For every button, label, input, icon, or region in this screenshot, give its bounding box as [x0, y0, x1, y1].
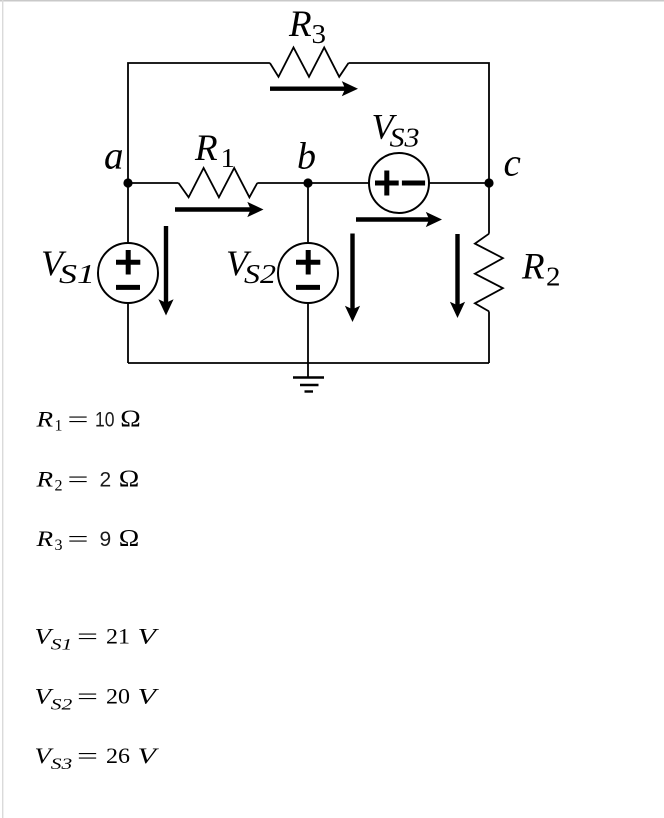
- value VS1 = 21 V: [35, 624, 160, 654]
- value VS2 = 20 V: [35, 683, 160, 713]
- bottom wire: [128, 362, 489, 364]
- resistor R1: [179, 168, 258, 197]
- svg-text:a: a: [104, 135, 124, 178]
- wire node a down to VS1: [127, 183, 129, 243]
- svg-text:c: c: [504, 142, 521, 185]
- wire R3 to top-right corner down to node c: [349, 63, 490, 183]
- label a: [104, 135, 124, 178]
- value R2 = 2 ohm: [35, 466, 139, 494]
- label b: [297, 136, 316, 178]
- node c: [484, 178, 493, 187]
- label R1: [194, 128, 235, 173]
- node a: [123, 178, 132, 187]
- label c: [504, 142, 521, 185]
- current arrow beside R2: [450, 234, 465, 318]
- voltage source VS1: [98, 243, 158, 303]
- value VS3 = 26 V: [35, 743, 160, 773]
- wire top-left loop: node a up and across to R3: [128, 63, 270, 183]
- label R2: [521, 247, 561, 292]
- label VS3: [372, 107, 420, 153]
- svg-text:R1=10Ω: R1=10Ω: [35, 407, 141, 435]
- svg-text:R3=9Ω: R3=9Ω: [35, 526, 139, 554]
- wire VS2 to bottom wire: [307, 303, 309, 363]
- wire VS1 to bottom wire: [127, 303, 129, 363]
- wire node b down to VS2: [307, 183, 309, 243]
- voltage source VS3: [369, 153, 429, 213]
- wire VS3 to node c: [429, 182, 489, 184]
- wire node c down to R2: [488, 183, 490, 234]
- current arrow for R3: [270, 81, 358, 96]
- wire node a to R1: [128, 182, 179, 184]
- resistor R2: [475, 234, 503, 312]
- svg-text:b: b: [297, 136, 316, 178]
- voltage source VS2: [278, 243, 338, 303]
- value R3 = 9 ohm: [35, 526, 139, 554]
- label VS1: [41, 243, 95, 289]
- current arrow for VS3: [356, 212, 442, 227]
- value R1 = 10 ohm: [35, 407, 141, 435]
- current arrow beside VS1: [158, 226, 173, 316]
- ground: [293, 363, 324, 392]
- label VS2: [226, 243, 276, 289]
- wire R2 to bottom-right corner: [488, 311, 490, 363]
- wire R1 to node b to VS3: [257, 182, 369, 184]
- node b: [303, 178, 312, 187]
- current arrow for R1: [175, 202, 264, 217]
- current arrow beside VS2: [345, 234, 360, 323]
- label R3: [288, 4, 326, 49]
- svg-text:R2=2Ω: R2=2Ω: [35, 466, 139, 494]
- resistor R3: [270, 48, 349, 77]
